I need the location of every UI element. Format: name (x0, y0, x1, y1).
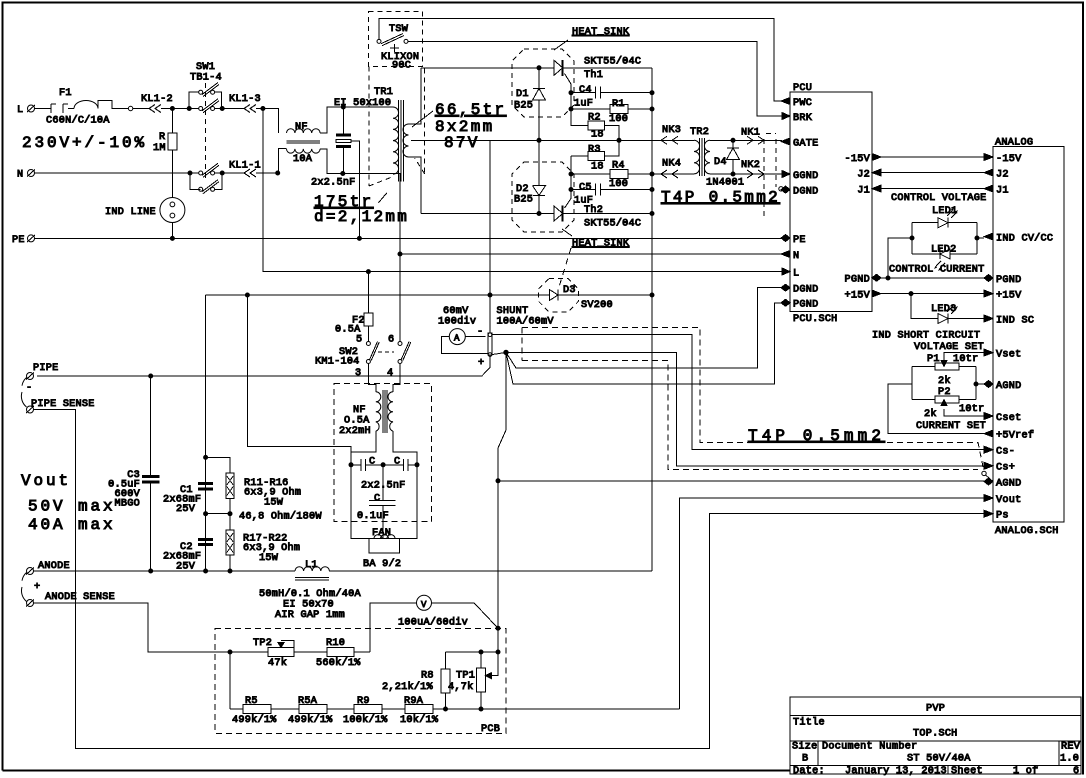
heat sink octagon Th1 dashed (512, 49, 574, 117)
node Th2-D2 (537, 212, 541, 216)
svg-text:560k/1%: 560k/1% (316, 657, 361, 669)
svg-text:HEAT_SINK: HEAT_SINK (572, 239, 630, 250)
pin Cset (984, 413, 993, 420)
node PGND (886, 276, 890, 280)
block ANALOG (993, 147, 1064, 523)
bracket anode pair (21, 573, 26, 602)
node R8 bottom (444, 707, 448, 711)
svg-text:ANALOG: ANALOG (995, 138, 1033, 149)
svg-text:PVP: PVP (926, 704, 945, 715)
svg-text:Date:: Date: (793, 766, 825, 777)
svg-text:C60N/C/10A: C60N/C/10A (46, 115, 110, 127)
svg-text:L: L (793, 269, 799, 280)
cable shield dashed (764, 134, 776, 217)
pin -15V out (872, 154, 881, 161)
svg-text:KL1-3: KL1-3 (229, 94, 261, 105)
wire meter junction down (497, 628, 499, 652)
node bus C5 (650, 188, 654, 192)
svg-text:N: N (793, 251, 799, 262)
svg-text:1.0: 1.0 (1060, 754, 1079, 765)
pin Cs- (984, 446, 993, 453)
wire J2 (881, 172, 984, 174)
wire V right to junction (432, 603, 499, 628)
svg-text:January 13, 2013: January 13, 2013 (845, 766, 947, 777)
svg-text:PE: PE (793, 235, 806, 246)
node cap row left (349, 463, 353, 467)
svg-text:66,5tr: 66,5tr (435, 101, 506, 119)
node Th1-D1 (537, 66, 541, 70)
node LED right (975, 236, 979, 240)
svg-text:Vset: Vset (996, 350, 1021, 361)
svg-text:Th2: Th2 (584, 204, 603, 216)
wire TR1 secondary bottom to Th2 (409, 157, 422, 214)
svg-text:BA 9/2: BA 9/2 (363, 558, 401, 570)
pin N (781, 251, 790, 258)
thermal link to D3 dashed (559, 248, 571, 287)
svg-text:50mH/0.1 Ohm/40A: 50mH/0.1 Ohm/40A (259, 588, 361, 600)
node sense TP2 (228, 650, 232, 654)
svg-text:SKT55/04C: SKT55/04C (584, 56, 641, 68)
node C2 bottom (204, 569, 208, 573)
node L vertical tap (261, 107, 265, 111)
svg-text:+: + (478, 358, 484, 369)
svg-text:100uA/60div: 100uA/60div (398, 617, 468, 629)
svg-text:KL1-1: KL1-1 (229, 161, 261, 172)
svg-text:-15V: -15V (996, 154, 1022, 165)
svg-text:C: C (374, 494, 380, 505)
pin PGND right (872, 274, 881, 281)
svg-text:90C: 90C (392, 61, 411, 72)
svg-text:4,7k: 4,7k (448, 681, 473, 693)
svg-text:Cset: Cset (996, 413, 1021, 424)
wire TSW to PWC (379, 19, 782, 101)
node N-NF junction (276, 171, 280, 175)
shield connection circle (779, 187, 783, 191)
svg-text:PE: PE (12, 235, 25, 246)
svg-text:SV200: SV200 (581, 300, 613, 311)
node LED left (910, 236, 914, 240)
svg-text:2,21k/1%: 2,21k/1% (382, 681, 434, 693)
node mid divider (204, 512, 208, 516)
wire rail tap to caps (247, 295, 351, 465)
wire SW2-4 to NF (393, 364, 400, 392)
wire negative rail down (205, 295, 207, 571)
svg-text:B: B (802, 754, 808, 765)
svg-text:NK1: NK1 (741, 128, 760, 139)
node cap row mid (381, 463, 385, 467)
pin AJ1 (984, 185, 993, 192)
svg-text:100: 100 (609, 179, 628, 190)
svg-text:BRK: BRK (793, 113, 813, 124)
svg-text:NK2: NK2 (741, 160, 760, 171)
node cap row right (415, 463, 419, 467)
svg-text:KM1-104: KM1-104 (315, 357, 360, 368)
pin AGND2 (984, 478, 993, 485)
svg-text:1N4001: 1N4001 (706, 178, 744, 189)
node Ycap-PE (357, 236, 361, 240)
svg-text:VOLTAGE SET: VOLTAGE SET (914, 342, 984, 353)
node rail shunt (488, 293, 492, 297)
pin IND SC (984, 315, 993, 322)
node bus C4 (650, 91, 654, 95)
wire Cs- (492, 335, 984, 450)
fan filter dashed box (334, 384, 432, 522)
wire pot loop (888, 367, 984, 434)
shield dashed upper (522, 328, 984, 472)
svg-text:O.5A: O.5A (344, 416, 370, 427)
wire TR1 primary bottom to N rail (393, 174, 400, 255)
node bus Th2 (650, 212, 654, 216)
svg-text:Sheet: Sheet (951, 765, 983, 777)
wire AGND sense (498, 480, 984, 482)
svg-text:NK3: NK3 (662, 125, 681, 136)
node C1 top (204, 455, 208, 459)
wire sense down to meterjct (498, 352, 506, 628)
svg-text:R3: R3 (588, 145, 601, 156)
svg-text:-15V: -15V (845, 154, 871, 165)
svg-text:1 of: 1 of (1013, 765, 1038, 777)
pin DGND lower (781, 284, 790, 291)
svg-text:D1: D1 (516, 89, 529, 100)
svg-text:18: 18 (591, 162, 604, 173)
svg-text:TOP.SCH: TOP.SCH (913, 729, 958, 740)
svg-text:2x2mH: 2x2mH (339, 426, 371, 437)
svg-text:GATE: GATE (793, 139, 818, 150)
wire Cs+ (506, 352, 984, 465)
thermal switch TSW KLIXON 90C (369, 12, 423, 67)
svg-text:J1: J1 (857, 186, 870, 197)
wire NF right bottom (320, 149, 343, 174)
svg-text:2k: 2k (924, 408, 937, 420)
bracket pipe pair (21, 378, 26, 408)
wire NF out left (351, 431, 376, 465)
svg-text:d=2,12mm: d=2,12mm (314, 208, 409, 226)
svg-text:499k/1%: 499k/1% (232, 714, 277, 726)
svg-text:V: V (421, 600, 427, 610)
svg-text:Title: Title (793, 717, 825, 729)
wire SW2-3 to NF (368, 364, 375, 392)
svg-text:ST 50V/40A: ST 50V/40A (907, 753, 971, 765)
wire L rail to PCU (263, 109, 782, 272)
bus thyristor cathode vertical (651, 68, 653, 571)
svg-text:J1: J1 (996, 186, 1009, 197)
svg-text:100A/60mV: 100A/60mV (497, 316, 555, 328)
svg-text:100k/1%: 100k/1% (343, 714, 388, 726)
node N loop right (220, 171, 224, 175)
svg-text:100div: 100div (438, 316, 476, 328)
wire PGND link (881, 277, 984, 279)
pin Ps (984, 510, 993, 517)
svg-text:-: - (477, 327, 483, 338)
svg-text:1M: 1M (153, 143, 166, 154)
svg-text:C: C (369, 457, 375, 468)
svg-text:R5A: R5A (298, 696, 318, 707)
node rail fanbox tap (245, 293, 249, 297)
node lamp-PE (170, 236, 174, 240)
wire L to SW1 (172, 108, 198, 110)
block PCU (790, 92, 872, 312)
node cap top (341, 105, 345, 109)
wire +15V link (881, 293, 984, 295)
svg-text:+15V: +15V (845, 291, 871, 302)
svg-text:L1: L1 (305, 560, 318, 571)
svg-text:50V max: 50V max (28, 498, 116, 516)
svg-text:KL1-2: KL1-2 (141, 94, 173, 105)
wire Vout (680, 498, 984, 709)
svg-text:CONTROL VOLTAGE: CONTROL VOLTAGE (891, 193, 986, 204)
wire PE line (35, 237, 783, 239)
pin Cs+ (984, 462, 993, 469)
svg-text:TR2: TR2 (690, 127, 709, 138)
svg-text:Cs-: Cs- (996, 447, 1015, 458)
pointer 175tr (379, 193, 388, 203)
svg-text:NF: NF (295, 122, 308, 133)
node R2R3 (617, 138, 621, 142)
svg-text:SKT55/04C: SKT55/04C (584, 218, 641, 230)
node +15V (909, 292, 913, 296)
node pot right AGND (974, 382, 978, 386)
wire ANODE line (34, 570, 652, 572)
svg-text:10A: 10A (293, 154, 313, 165)
svg-text:HEAT_SINK: HEAT_SINK (572, 27, 630, 38)
pin +5Vref (984, 430, 993, 437)
svg-text:15W: 15W (264, 497, 284, 508)
pin IND CV/CC (984, 233, 993, 240)
svg-text:C4: C4 (579, 85, 592, 96)
svg-text:ANODE: ANODE (38, 561, 70, 572)
pin A-15V (984, 154, 993, 161)
wire top rail (446, 651, 499, 653)
svg-text:2k: 2k (938, 375, 951, 387)
wire midpoint to TR2 (490, 140, 691, 332)
node TP1 bottom (479, 707, 483, 711)
svg-text:A: A (454, 334, 460, 344)
svg-text:87V: 87V (444, 134, 480, 152)
pin PGND left (781, 299, 790, 306)
svg-text:Cs+: Cs+ (996, 463, 1015, 474)
PCB dashed box (215, 629, 506, 734)
pin Vset (984, 349, 993, 356)
svg-text:10k/1%: 10k/1% (400, 714, 439, 726)
wire TSW to BRK (408, 41, 782, 116)
node AGND sense tap (496, 479, 500, 483)
svg-text:IND SC: IND SC (996, 316, 1034, 327)
wire N line (35, 172, 199, 174)
svg-text:PWC: PWC (793, 98, 812, 109)
svg-text:R2: R2 (588, 113, 601, 124)
pin AJ2 (984, 169, 993, 176)
pin GATE (781, 138, 790, 145)
svg-text:EI 50x100: EI 50x100 (334, 98, 391, 109)
wire shunt to pipe (37, 355, 490, 376)
svg-text:PIPE SENSE: PIPE SENSE (31, 399, 95, 410)
wire ANODE SENSE to PCB (34, 603, 231, 652)
pin DGND upper (781, 186, 790, 193)
wire bottom chain (230, 708, 680, 710)
node C4 gate (569, 91, 573, 95)
node R4 left (569, 172, 573, 176)
svg-text:IND LINE: IND LINE (105, 207, 156, 218)
wire anode to bus corner (651, 570, 654, 572)
node D4 top (731, 138, 735, 142)
diode D3 SV200 (538, 278, 578, 312)
wire -15V (881, 156, 984, 158)
pin AGND1 (984, 381, 993, 388)
svg-text:Vout: Vout (996, 495, 1021, 506)
svg-text:Vout: Vout (21, 472, 71, 490)
node R1 left (569, 107, 573, 111)
wire SW2-6 to N (399, 254, 401, 342)
heat sink octagon Th2 dashed (512, 162, 574, 232)
svg-text:PCU.SCH: PCU.SCH (793, 314, 838, 325)
svg-text:1uF: 1uF (574, 99, 593, 110)
pin A-PGND (984, 275, 993, 282)
node C3-ANODE (149, 569, 153, 573)
svg-text:R8: R8 (421, 671, 434, 682)
svg-text:SW1: SW1 (196, 62, 215, 73)
svg-text:B25: B25 (514, 195, 533, 206)
node C5 gate (569, 188, 573, 192)
pin +15V out (872, 290, 881, 297)
wire NF right to TR1 top (320, 107, 393, 133)
svg-text:230V+/-10%: 230V+/-10% (22, 134, 147, 152)
svg-text:10tr: 10tr (959, 404, 984, 415)
wire J1 (881, 188, 984, 190)
svg-text:3: 3 (355, 368, 361, 379)
wire TR1 secondary top to Th1 (409, 68, 422, 124)
svg-text:2x2.5nF: 2x2.5nF (311, 178, 356, 189)
node midpoint TR1ct (537, 138, 541, 142)
svg-text:R: R (159, 132, 165, 143)
svg-text:MBGO: MBGO (115, 499, 140, 510)
svg-text:C5: C5 (579, 183, 592, 194)
svg-text:REV: REV (1061, 742, 1081, 753)
pin J1 out (872, 185, 881, 192)
svg-text:TR1: TR1 (374, 87, 393, 98)
svg-text:TB1-4: TB1-4 (190, 73, 222, 84)
svg-text:Th1: Th1 (584, 69, 603, 81)
pin J2 out (872, 169, 881, 176)
voltmeter V 100uA/60div (417, 595, 432, 610)
svg-text:100: 100 (609, 114, 628, 125)
svg-text:PIPE: PIPE (33, 363, 58, 374)
thermal link TSW-TR1 dashed (369, 66, 392, 186)
svg-text:NF: NF (353, 405, 366, 416)
node SW1 right (220, 107, 224, 111)
node bus R4 (650, 172, 654, 176)
svg-text:6: 6 (1073, 766, 1079, 777)
thermal link TR1 right dashed (415, 69, 425, 174)
svg-text:PCU: PCU (793, 83, 812, 94)
svg-text:60mV: 60mV (443, 306, 469, 317)
svg-text:J2: J2 (996, 170, 1009, 181)
shield left dashed (521, 328, 523, 361)
svg-text:25V: 25V (176, 504, 196, 515)
contact pair KL1 lower loop (190, 173, 222, 189)
svg-text:CONTROL CURRENT: CONTROL CURRENT (889, 265, 984, 276)
svg-text:Document Number: Document Number (822, 741, 917, 753)
svg-text:PGND: PGND (845, 275, 870, 286)
wire Ps (34, 410, 985, 749)
svg-text:-: - (26, 383, 32, 394)
wire LED loop (888, 223, 984, 278)
node R8 TP1 top rail (479, 650, 483, 654)
svg-text:D2: D2 (516, 184, 529, 195)
pin PWC (781, 98, 790, 105)
svg-text:TP1: TP1 (456, 671, 475, 682)
svg-text:46,8 Ohm/180W: 46,8 Ohm/180W (239, 511, 322, 523)
svg-text:47k: 47k (268, 657, 287, 669)
pin A+15V (984, 290, 993, 297)
node N rail SW2 (398, 252, 402, 256)
svg-text:15W: 15W (259, 553, 279, 564)
svg-text:IND SHORT CIRCUIT: IND SHORT CIRCUIT (872, 331, 980, 342)
wire N to TR1 bottom (343, 173, 393, 175)
pin BRK (782, 113, 790, 120)
node sense junction (504, 350, 508, 354)
node N loop left (188, 171, 192, 175)
svg-text:PGND: PGND (793, 300, 818, 311)
node L rail F2 (366, 270, 370, 274)
wire negative rail (206, 294, 652, 296)
svg-text:AIR GAP 1mm: AIR GAP 1mm (275, 610, 345, 621)
svg-text:L: L (17, 105, 23, 116)
node cap bottom (341, 172, 345, 176)
svg-text:TSW: TSW (389, 24, 409, 35)
pointer 66,5tr (412, 111, 433, 127)
svg-text:ANALOG.SCH: ANALOG.SCH (995, 526, 1059, 537)
svg-text:0.1uF: 0.1uF (357, 511, 389, 522)
wire NF bottom left (279, 149, 287, 174)
svg-text:D3: D3 (563, 285, 576, 296)
svg-text:DGND: DGND (793, 187, 818, 198)
wire NF out right (393, 431, 417, 465)
wire V left to R10 (370, 603, 417, 652)
svg-text:AGND: AGND (996, 381, 1021, 392)
wire TR1 center tap (411, 139, 490, 141)
node rail bus (650, 293, 654, 297)
svg-text:CURRENT SET: CURRENT SET (916, 421, 986, 432)
svg-text:B25: B25 (514, 101, 533, 112)
node meter junction (496, 626, 500, 630)
svg-text:5: 5 (356, 335, 362, 346)
svg-text:DGND: DGND (793, 285, 818, 296)
svg-text:ANODE SENSE: ANODE SENSE (45, 592, 115, 603)
node PIPE-C3 (149, 374, 153, 378)
wire DGND sense (506, 288, 781, 368)
pin L (782, 268, 790, 275)
svg-text:F1: F1 (59, 88, 72, 99)
svg-text:4: 4 (387, 368, 393, 379)
svg-text:T4P 0.5mm2: T4P 0.5mm2 (661, 189, 780, 207)
svg-text:6: 6 (388, 335, 394, 346)
node SW1 left (187, 107, 191, 111)
svg-text:499k/1%: 499k/1% (288, 714, 333, 726)
wire L to NF (263, 109, 279, 134)
svg-text:PCB: PCB (481, 724, 500, 735)
svg-text:PGND: PGND (996, 275, 1021, 286)
svg-text:R9: R9 (357, 696, 370, 707)
svg-text:J2: J2 (857, 170, 870, 181)
pin PE (781, 235, 790, 242)
svg-text:NK4: NK4 (662, 159, 681, 170)
svg-text:N: N (17, 170, 23, 181)
svg-text:C: C (394, 457, 400, 468)
shield circle AGND (982, 471, 986, 475)
wire N rail to PCU (400, 253, 782, 255)
title block frame (790, 697, 1081, 774)
svg-text:18: 18 (591, 130, 604, 141)
